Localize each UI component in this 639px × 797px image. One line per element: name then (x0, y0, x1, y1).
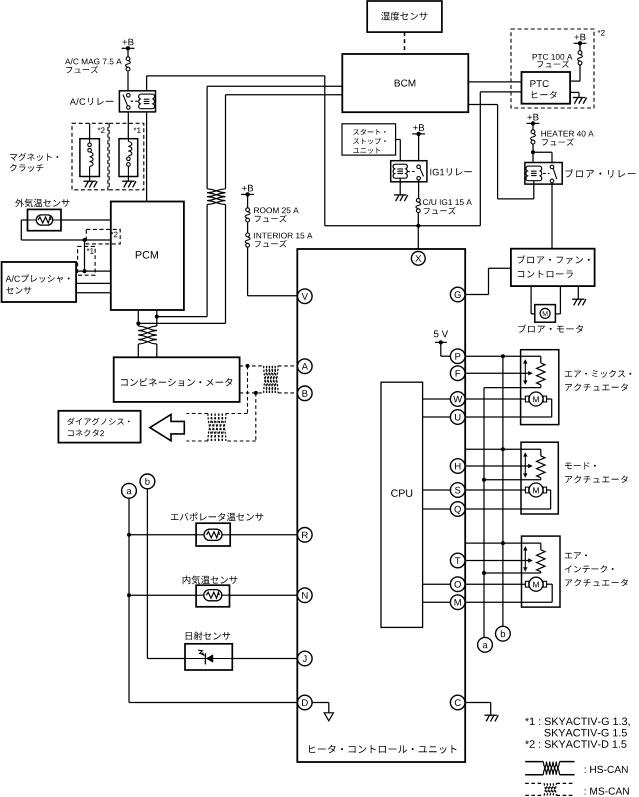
wire (465, 399, 552, 417)
sensor A/C pressure (2, 262, 77, 302)
node a (left) (122, 483, 137, 498)
wire (127, 72, 129, 92)
wire (dashed) (255, 393, 257, 441)
terminal U (450, 410, 465, 425)
wire (76, 282, 111, 284)
coil magnet clutch *1 (119, 139, 138, 177)
wire (138, 205, 225, 324)
twisted pair HS-CAN (BCM-PCM) (207, 189, 225, 205)
terminal H (450, 459, 465, 474)
wire (84, 240, 86, 271)
wire (468, 81, 521, 83)
wire (21, 220, 111, 240)
node junction (531, 150, 535, 154)
resistor (position sense) (537, 456, 545, 478)
wire (312, 703, 329, 713)
module CPU (381, 382, 423, 627)
wire (dashed) (186, 413, 247, 415)
wire (423, 489, 451, 491)
terminal S (450, 483, 465, 498)
motor mode actuator (525, 483, 546, 497)
wire (423, 583, 451, 585)
terminal Q (450, 502, 465, 517)
label magnet clutch (10, 153, 58, 172)
heater PTC (522, 72, 571, 104)
wire (531, 286, 535, 314)
sensor evaporator temp (196, 523, 230, 546)
wire (76, 270, 111, 272)
wire (555, 286, 560, 314)
wire (465, 489, 525, 491)
label C/U IG1 15 A fuse (423, 199, 472, 214)
wire (247, 194, 249, 207)
wire (89, 123, 91, 138)
node junction (501, 541, 505, 545)
label IG1 relay (430, 168, 472, 176)
box start-stop unit (342, 124, 396, 155)
wire HS-CAN high (207, 86, 342, 189)
track line with arrows (523, 546, 527, 572)
terminal J (298, 651, 313, 666)
power 5 V (434, 331, 451, 357)
ground (IG1 relay) (394, 195, 408, 201)
label blower relay (565, 169, 635, 178)
terminal R (298, 528, 313, 543)
terminal F (450, 366, 465, 381)
node b (left) (140, 474, 155, 489)
wire (577, 286, 579, 299)
terminal A (298, 359, 313, 374)
node junction (254, 391, 258, 395)
ground (C) (485, 715, 499, 721)
wire (484, 385, 541, 388)
wire (399, 178, 401, 195)
wire (156, 310, 158, 326)
terminal D (298, 695, 313, 710)
wire (532, 123, 534, 129)
box magnet clutch *1 (dashed) (109, 123, 144, 190)
power +B (PTC) (574, 34, 587, 46)
wire (465, 449, 541, 456)
label air mix actuator (565, 370, 632, 391)
wire (465, 490, 550, 509)
wire (396, 140, 401, 165)
wire (129, 594, 297, 596)
node junction (482, 571, 486, 575)
wire (579, 43, 581, 50)
wire (570, 65, 580, 81)
ground (magnet clutch *1) (122, 181, 136, 187)
wire (247, 222, 249, 233)
wire (dashed) (186, 440, 256, 442)
node junction (127, 593, 131, 597)
node junction (501, 447, 505, 451)
wire (418, 134, 420, 165)
wire HS-CAN low (226, 95, 343, 189)
twisted pair MS-CAN (meter-A/B) (264, 366, 278, 393)
label sun sensor (186, 632, 231, 641)
twisted pair HS-CAN (PCM-meter) (138, 326, 157, 344)
wire (129, 534, 297, 536)
label PTC 100 A fuse (533, 54, 573, 68)
note *1 *2 (525, 718, 630, 748)
node junction (83, 238, 87, 242)
label blower motor (518, 325, 583, 333)
ground (magnet clutch *2) (83, 181, 97, 187)
label HEATER 40 A fuse (541, 131, 593, 146)
wire (417, 226, 419, 252)
label interior temp sensor (183, 576, 238, 585)
relay A/C relay (119, 91, 155, 112)
wire (465, 584, 552, 602)
node junction (136, 321, 140, 325)
fuse INTERIOR 15 A (245, 233, 250, 247)
module heater control unit (297, 249, 465, 762)
box PTC *2 (dashed) (511, 29, 605, 108)
label air intake actuator (565, 552, 628, 586)
wire (127, 48, 129, 57)
wire (533, 152, 552, 165)
box *2 (dashed) (86, 229, 120, 244)
power +B (IG1) (412, 124, 425, 136)
wire (551, 183, 553, 249)
label outside air temp sensor (15, 199, 69, 208)
resistor (position sense) (537, 550, 545, 572)
wire (146, 112, 148, 202)
wire (484, 572, 541, 573)
wire (570, 92, 579, 97)
wire (423, 416, 451, 418)
wire (480, 92, 521, 226)
wiper wire with arrow (465, 464, 533, 468)
sensor sun (photodiode) (185, 644, 232, 670)
box mode actuator (521, 442, 558, 514)
node junction (246, 364, 250, 368)
terminal V (298, 289, 313, 304)
fuse PTC 100 A (578, 51, 583, 65)
wire (465, 268, 511, 294)
wire (157, 205, 207, 317)
motor air intake actuator (525, 577, 546, 591)
wire (dashed) (247, 366, 249, 414)
wire (423, 601, 451, 603)
track line with arrows (523, 452, 527, 478)
terminal B (298, 386, 313, 401)
ground (blower controller) (572, 299, 586, 305)
wire (248, 247, 298, 295)
ground (PTC) (573, 98, 587, 104)
wire (127, 112, 129, 139)
wire (147, 488, 185, 658)
fuse A/C MAG 7.5 A (126, 57, 131, 71)
label evaporator temp sensor (171, 512, 263, 521)
node junction (416, 224, 420, 228)
terminal X (411, 251, 425, 265)
wiper wire with arrow (465, 371, 533, 375)
node b (right) (496, 626, 511, 641)
wire MS-CAN (dashed) (240, 365, 298, 367)
label A/C relay (70, 98, 114, 105)
legend MS-CAN (525, 783, 629, 795)
fuse HEATER 40 A (531, 130, 536, 144)
terminal W (450, 392, 465, 407)
fuse ROOM 25 A (245, 208, 250, 222)
label A/C MAG 7.5 A fuse (65, 58, 122, 73)
module PCM (111, 202, 184, 311)
ground arrow (D) (324, 713, 333, 721)
coil magnet clutch *2 (80, 139, 100, 177)
wire (61, 219, 111, 221)
node junction (155, 315, 159, 319)
wire (468, 105, 534, 199)
terminal P (450, 349, 465, 364)
box diagnosis connector 2 (58, 411, 140, 443)
wire (465, 356, 541, 363)
wire (465, 583, 525, 585)
wire (127, 177, 129, 182)
wire (dashed) (404, 32, 406, 54)
power +B (HEATER) (527, 114, 540, 126)
wire (423, 398, 451, 400)
label ROOM 25 A fuse (254, 207, 299, 222)
terminal N (298, 588, 313, 603)
sensor outside air temp (28, 209, 62, 230)
wire (bus to a) (483, 388, 485, 638)
wire (418, 180, 420, 198)
legend HS-CAN (525, 762, 627, 775)
wire (465, 398, 525, 400)
box air intake actuator (522, 536, 561, 607)
wire (465, 703, 491, 716)
wire (417, 212, 419, 226)
wire (bus to b) (502, 356, 504, 627)
box air mix actuator (521, 350, 559, 425)
wire (IG bus) (325, 225, 481, 227)
module BCM (342, 54, 468, 112)
box *1 (dashed) (78, 246, 96, 275)
resistor (position sense) (537, 363, 545, 385)
wiper wire with arrow (465, 558, 533, 562)
sensor interior temp (196, 585, 229, 607)
motor blower motor (535, 305, 556, 323)
module blower fan controller (511, 249, 595, 286)
arrow to diagnosis connector (150, 415, 184, 441)
wire (484, 478, 541, 480)
node a (right) (478, 637, 493, 652)
terminal M (450, 595, 465, 610)
box humidity sensor (367, 1, 442, 32)
relay blower relay (525, 163, 562, 185)
wire (89, 177, 91, 182)
motor air mix actuator (525, 392, 546, 406)
node junction (482, 478, 486, 482)
wire (156, 344, 158, 357)
wire (129, 498, 297, 703)
wire (137, 310, 139, 326)
wire (76, 292, 111, 294)
wire (465, 543, 541, 550)
node junction (83, 269, 87, 273)
node junction (127, 533, 131, 537)
module combination meter (114, 357, 240, 402)
wire (232, 658, 297, 660)
wire (532, 144, 534, 166)
terminal O (450, 577, 465, 592)
relay IG1 relay (391, 161, 427, 182)
wire (137, 344, 139, 357)
terminal C (450, 695, 465, 710)
node junction (501, 354, 505, 358)
box magnet clutch *2 (dashed) (72, 123, 108, 190)
label INTERIOR 15 A fuse (254, 233, 312, 248)
terminal T (450, 553, 465, 568)
wire (147, 76, 325, 226)
fuse C/U IG1 15 A (416, 198, 421, 212)
twisted pair MS-CAN (diagnosis) (208, 414, 226, 442)
power +B (ROOM) (241, 185, 254, 197)
wire (423, 508, 451, 510)
wire MS-CAN (dashed) (240, 392, 298, 394)
power +B (A/C MAG) (122, 39, 135, 51)
track line with arrows (523, 359, 527, 385)
label mode actuator (565, 462, 628, 483)
terminal G (450, 287, 465, 302)
